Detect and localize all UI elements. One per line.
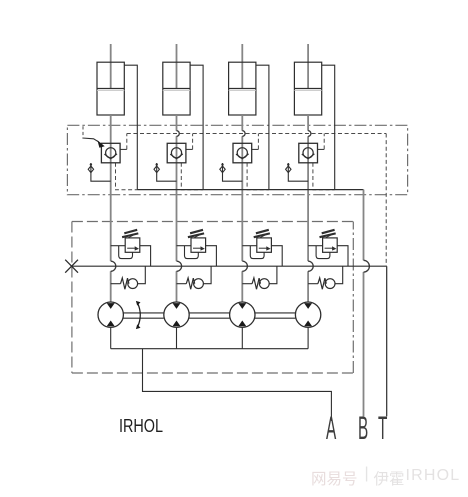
valve V1 pilot lead (dashed tick) [82, 126, 84, 137]
main line unit 4 (valve to motor, hop over supply line) [307, 163, 309, 302]
check valve V1 pilot port stub [120, 148, 127, 150]
make-up check valve K1 poppet [128, 279, 138, 289]
check valve V4 poppet [303, 148, 313, 158]
make-up check valve K1 spring [121, 278, 129, 289]
rod-side bus line [137, 189, 363, 191]
main line unit 1 (valve to motor, hop over supply line) [110, 163, 112, 302]
cylinder C1 piston lower edge [97, 89, 124, 91]
port B line (hop over supply line) [363, 190, 365, 417]
main line unit 1 (through valve) [110, 143, 112, 163]
relief valve R4 body [323, 238, 338, 252]
valve manifold enclosure (dash-dot box) [67, 125, 407, 194]
check valve V4 seat [302, 154, 315, 159]
motor M1 rotation arrow [138, 303, 141, 326]
cylinder C3 piston rod [241, 44, 243, 89]
pilot-operated check valve V4 body [299, 143, 318, 163]
port T line [386, 266, 388, 416]
drain line valve 2 (dashed) [181, 163, 203, 190]
relief valve R2 outlet to supply line [206, 246, 217, 267]
cylinder C2 piston rod [176, 44, 178, 89]
main line unit 3 (through valve) [241, 143, 243, 163]
test point M4 dot [287, 163, 289, 165]
pilot-operated check valve V3 body [233, 143, 252, 163]
relief valve R1 pilot loop [119, 246, 133, 259]
test point M3 line [223, 163, 243, 181]
port A line [143, 349, 332, 421]
shaft coupling M2-M3 [189, 313, 229, 318]
relief valve R2 spring [188, 230, 204, 237]
main line unit 4 (cylinder to valve, hop over pilot bus) [307, 115, 309, 143]
relief valve R2 body [191, 238, 206, 252]
cylinder C2 body [163, 62, 190, 115]
plugged port X symbol [65, 260, 78, 273]
pilot branch valve 2 (dashed) [192, 134, 194, 150]
main line unit 4 (through valve) [307, 143, 309, 163]
check valve V2 seat [170, 154, 183, 159]
cylinder C4 piston rod [307, 44, 309, 89]
make-up check valve K3 line [242, 283, 252, 285]
motor M4 lower flow triangle [304, 321, 312, 327]
shaft coupling M3-M4 [255, 313, 295, 318]
main line unit 2 (through valve) [176, 143, 178, 163]
relief valve R1 body [125, 238, 140, 252]
motor M1 rotation arrow head bottom [136, 324, 141, 329]
cylinder C3 rod-side port line [256, 65, 269, 189]
drain line valve 1 (dashed) [116, 163, 138, 190]
relief valve R2 arrow [193, 247, 201, 249]
cylinder C1 piston rod [110, 44, 112, 89]
pilot branch valve 1 (dashed) [126, 134, 128, 150]
motor M4 case line to manifold [307, 327, 309, 348]
port label T [378, 410, 387, 447]
motor M1 rotation arrow head top [136, 301, 141, 306]
motor M4 upper flow triangle [304, 303, 312, 309]
test point M4 line [288, 163, 308, 181]
relief valve R3 arrow [259, 247, 267, 249]
motor case drain manifold [111, 348, 308, 350]
motor manifold enclosure top border (dashed) [72, 221, 353, 223]
supply line (main horizontal) [72, 265, 387, 267]
motor manifold enclosure right border (dash-dot) [352, 222, 354, 374]
main line unit 2 (valve to motor, hop over supply line) [176, 163, 178, 302]
make-up check valve K4 poppet [325, 279, 335, 289]
test point M1 diamond [88, 166, 93, 173]
hydraulic motor M2 [164, 302, 189, 327]
motor M1 case line to manifold [110, 327, 112, 348]
test point M2 dot [156, 163, 158, 165]
motor M2 upper flow triangle [173, 303, 181, 309]
pilot branch valve 3 (dashed) [257, 134, 259, 150]
make-up check valve K2 line [177, 283, 187, 285]
check valve V2 pilot port stub [186, 148, 193, 150]
make-up check valve K2 poppet [194, 279, 204, 289]
port label B [358, 410, 367, 447]
main line unit 3 (valve to motor, hop over supply line) [241, 163, 243, 302]
check valve V2 poppet [171, 148, 181, 158]
make-up check valve K1 outlet to supply line [138, 266, 146, 284]
motor manifold enclosure bottom border (dashed) [72, 372, 353, 374]
pilot branch valve 4 (dashed) [323, 134, 325, 150]
relief valve R1 inlet line [111, 245, 126, 247]
brand text IRHOL [119, 416, 163, 437]
cylinder C2 rod-side port line [190, 65, 203, 189]
motor M3 case line to manifold [241, 327, 243, 348]
relief valve R1 spring [122, 230, 138, 237]
port label A [326, 410, 335, 447]
cylinder C4 body [294, 62, 321, 115]
cylinder C3 body [229, 62, 256, 115]
cylinder C2 piston lower edge [163, 89, 190, 91]
hydraulic motor M3 [230, 302, 255, 327]
make-up check valve K4 line [308, 283, 318, 285]
check valve V3 seat [236, 154, 249, 159]
test point M2 line [157, 163, 177, 181]
drain line valve 4 (dashed) [313, 163, 335, 190]
hydraulic motor M4 [295, 302, 320, 327]
make-up check valve K3 poppet [259, 279, 269, 289]
test point M3 dot [221, 163, 223, 165]
test point M2 diamond [154, 166, 159, 173]
pilot line bus (dashed) [127, 133, 386, 135]
drain line valve 3 (dashed) [247, 163, 269, 190]
motor M2 case line to manifold [176, 327, 178, 348]
main line unit 3 (cylinder to valve, hop over pilot bus) [241, 115, 243, 143]
hydraulic motor M1 [98, 302, 123, 327]
relief valve R1 arrow [127, 247, 135, 249]
make-up check valve K2 outlet to supply line [203, 266, 211, 284]
check valve V3 pilot port stub [252, 148, 259, 150]
make-up check valve K2 spring [186, 278, 194, 289]
relief valve R4 pilot loop [316, 246, 330, 259]
watermark 伊霍 [374, 467, 405, 489]
make-up check valve K3 spring [252, 278, 260, 289]
relief valve R3 inlet line [242, 245, 256, 247]
make-up check valve K4 spring [318, 278, 326, 289]
motor M2 lower flow triangle [173, 321, 181, 327]
main line unit 2 (cylinder to valve, hop over pilot bus) [176, 115, 178, 143]
make-up check valve K1 line [111, 283, 121, 285]
cylinder C1 body [97, 62, 124, 115]
relief valve R2 inlet line [177, 245, 192, 247]
test point M3 diamond [220, 166, 225, 173]
relief valve R3 outlet to supply line [271, 246, 282, 267]
make-up check valve K3 outlet to supply line [269, 266, 277, 284]
test point M1 line [91, 163, 111, 181]
motor M1 lower flow triangle [107, 321, 115, 327]
cylinder C1 rod-side port line [124, 65, 137, 189]
cylinder C4 rod-side port line [322, 65, 335, 189]
motor manifold enclosure left border (dashed) [71, 222, 73, 374]
main line unit 1 (cylinder to valve) [110, 115, 112, 143]
relief valve R4 outlet to supply line [337, 246, 348, 267]
valve V1 pilot actuation arrow [82, 138, 98, 142]
relief valve R4 arrow [325, 247, 333, 249]
relief valve R1 outlet to supply line [140, 246, 151, 267]
cylinder C3 piston lower edge [229, 89, 256, 91]
pilot-operated check valve V1 body [101, 143, 120, 163]
watermark divider [365, 465, 369, 483]
relief valve R3 body [257, 238, 272, 252]
check valve V4 pilot port stub [318, 148, 325, 150]
pilot-operated check valve V2 body [167, 143, 186, 163]
relief valve R4 inlet line [308, 245, 323, 247]
relief valve R4 spring [320, 230, 336, 237]
watermark 网易号 [311, 467, 358, 489]
check valve V1 poppet [106, 148, 116, 158]
cylinder C4 piston lower edge [294, 89, 321, 91]
motor M3 upper flow triangle [238, 303, 246, 309]
valve V1 pilot arrow head [97, 140, 104, 147]
watermark IRHOL [406, 467, 461, 485]
motor M1 upper flow triangle [107, 303, 115, 309]
shaft coupling M1-M2 [123, 313, 163, 318]
check valve V3 poppet [237, 148, 247, 158]
motor M3 lower flow triangle [238, 321, 246, 327]
relief valve R2 pilot loop [185, 246, 199, 259]
relief valve R3 spring [254, 230, 270, 237]
test point M1 dot [90, 163, 92, 165]
relief valve R3 pilot loop [250, 246, 264, 259]
test point M4 diamond [286, 166, 291, 173]
pilot drain line to tank (dashed) [385, 134, 387, 267]
make-up check valve K4 outlet to supply line [335, 266, 343, 284]
check valve V1 seat [104, 154, 117, 159]
